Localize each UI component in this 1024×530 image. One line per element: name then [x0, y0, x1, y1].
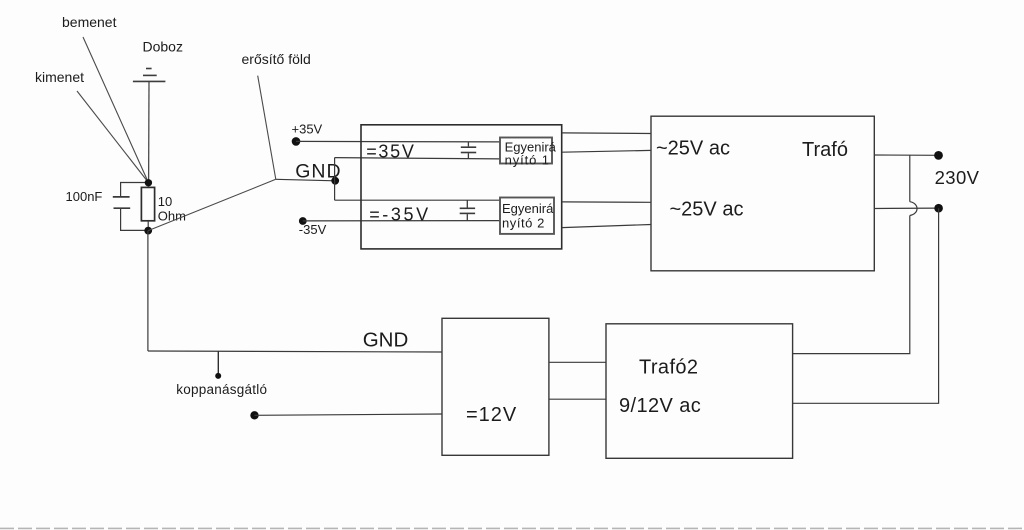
svg-text:=12V: =12V [466, 404, 517, 426]
ground symbol (chassis, Doboz) [133, 69, 166, 82]
PSU box [361, 125, 562, 249]
svg-text:=-35V: =-35V [369, 204, 431, 224]
node 230V bottom [934, 204, 943, 213]
wire hop arc over bottom wire [910, 202, 917, 216]
svg-text:+35V: +35V [292, 121, 323, 136]
svg-text:9/12V ac: 9/12V ac [619, 395, 701, 417]
wire R1 bottom lead [147, 221, 149, 231]
wire -35V to rectifier U2 [303, 220, 500, 222]
wire ground to node A [148, 82, 150, 183]
rectifier box U2 [500, 198, 554, 234]
svg-text:GND: GND [363, 328, 409, 351]
capacitor C1 100nF [113, 183, 149, 231]
wire GND top rail to rectifier U1 [335, 158, 500, 159]
node +35V [292, 137, 301, 146]
wire +35V to rectifier U1 [296, 140, 500, 143]
wire lower GND bus to 12V box [148, 351, 442, 352]
svg-text:bemenet: bemenet [62, 14, 117, 30]
svg-text:erősítő föld: erősítő föld [242, 51, 311, 67]
wire koppanásgátló tap [217, 351, 219, 373]
wire PSU to Trafó 3 [562, 201, 651, 203]
transformer box Trafó2 [606, 324, 793, 459]
wire vertical continues down to Trafó2 [793, 216, 910, 354]
wire from 230V bottom node down to Trafó2 [793, 208, 939, 403]
selection marquee dashed line at bottom [0, 527, 1024, 529]
svg-text:Trafó: Trafó [802, 139, 848, 161]
svg-text:kimenet: kimenet [35, 69, 84, 85]
wire lower input to 12V box [255, 414, 443, 415]
svg-text:koppanásgátló: koppanásgátló [176, 382, 267, 397]
wire Trafó to 230V top [874, 154, 938, 156]
transformer box Trafó [651, 116, 874, 271]
wire Trafó to 230V bottom [874, 207, 938, 209]
svg-text:Trafó2: Trafó2 [639, 356, 698, 378]
svg-text:Egyenirá: Egyenirá [502, 201, 554, 216]
capacitor C2 [461, 142, 476, 160]
node -35V [299, 217, 307, 225]
svg-text:Doboz: Doboz [143, 39, 183, 55]
node lower input [250, 411, 258, 419]
box =12V [442, 318, 549, 455]
wire PSU to Trafó 4 [562, 225, 651, 228]
svg-text:=35V: =35V [366, 142, 415, 162]
wire leader erősítő föld to junction J1 [258, 76, 276, 180]
svg-text:nyító 1: nyító 1 [505, 152, 550, 167]
wire PSU to Trafó 1 [562, 132, 651, 135]
svg-text:230V: 230V [935, 167, 980, 188]
node koppanásgátló [215, 373, 221, 379]
node A (top of R1) [145, 179, 152, 186]
wire leader bemenet to node A [83, 37, 148, 183]
rectifier box U1 [500, 138, 552, 164]
svg-text:100nF: 100nF [66, 189, 103, 204]
wire node B down to lower GND bus [147, 231, 149, 351]
svg-text:~25V ac: ~25V ac [656, 137, 730, 159]
wire leader kimenet to node A [77, 91, 148, 183]
node B (bottom of R1) [144, 227, 152, 235]
wire GND bottom rail to rectifier U2 [335, 199, 500, 201]
wire PSU to Trafó 2 [562, 150, 651, 152]
resistor R1 [141, 187, 154, 220]
wire diagonal node B to junction J1 [148, 179, 276, 230]
wire vertical from 230V top junction down (upper part) [909, 155, 911, 202]
node 230V top [934, 151, 943, 160]
wire 12V box to Trafó2 lower [549, 398, 606, 400]
svg-text:10: 10 [158, 194, 172, 209]
svg-text:~25V ac: ~25V ac [670, 198, 744, 220]
svg-text:nyító 2: nyító 2 [502, 215, 545, 230]
wire GND bracket vertical [334, 158, 336, 201]
node GND [331, 177, 339, 185]
wire 12V box to Trafó2 upper [549, 361, 606, 363]
capacitor C3 [460, 200, 475, 221]
wire junction J1 to GND node [276, 179, 335, 181]
